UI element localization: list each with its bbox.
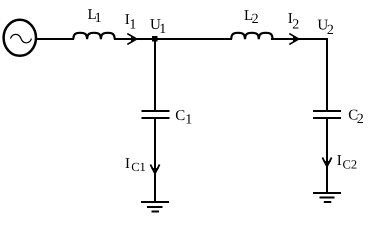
svg-text:C2: C2 xyxy=(343,158,358,172)
capacitor C2 xyxy=(313,110,341,119)
current arrow I1 xyxy=(127,34,137,45)
capacitor C1 xyxy=(142,110,170,119)
svg-text:1: 1 xyxy=(95,11,102,26)
wire xyxy=(36,38,74,40)
current arrow IC1 xyxy=(150,165,159,175)
wire xyxy=(326,40,328,110)
node U1 xyxy=(152,36,158,42)
wire xyxy=(114,38,232,40)
svg-text:2: 2 xyxy=(357,112,364,127)
label I2 xyxy=(288,11,300,32)
ground xyxy=(313,192,341,203)
label I1 xyxy=(125,12,137,32)
label U1 xyxy=(150,17,166,37)
svg-text:2: 2 xyxy=(292,17,299,32)
inductor L2 xyxy=(231,33,272,39)
current arrow IC2 xyxy=(322,158,331,168)
svg-text:2: 2 xyxy=(252,12,259,27)
svg-text:C: C xyxy=(175,108,185,124)
inductor L1 xyxy=(73,33,114,39)
svg-text:C1: C1 xyxy=(131,160,146,174)
ground xyxy=(141,201,169,213)
svg-text:1: 1 xyxy=(185,112,192,127)
svg-text:2: 2 xyxy=(327,23,334,38)
label C2 xyxy=(348,107,364,127)
wire xyxy=(271,38,328,40)
svg-text:1: 1 xyxy=(129,17,136,32)
wire xyxy=(326,119,328,192)
wire xyxy=(154,119,156,201)
svg-text:I: I xyxy=(337,153,342,169)
label U2 xyxy=(317,17,334,38)
label L1 xyxy=(88,7,102,26)
label IC2 xyxy=(337,153,357,172)
current arrow I2 xyxy=(289,34,299,45)
svg-text:I: I xyxy=(125,156,130,172)
svg-text:1: 1 xyxy=(159,22,166,37)
wire xyxy=(154,40,156,110)
AC source V1 xyxy=(4,20,36,56)
label IC1 xyxy=(125,156,146,174)
label C1 xyxy=(175,108,192,127)
label L2 xyxy=(244,8,259,27)
